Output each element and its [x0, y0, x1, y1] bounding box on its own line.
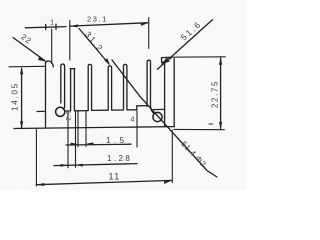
svg-text:22.75: 22.75 [211, 80, 220, 108]
svg-text:4: 4 [131, 117, 135, 124]
svg-text:1: 1 [50, 18, 54, 27]
svg-text:1.5: 1.5 [106, 136, 128, 145]
svg-text:23.1: 23.1 [87, 15, 108, 24]
svg-text:2.5: 2.5 [65, 110, 72, 121]
svg-text:14.05: 14.05 [11, 82, 20, 111]
svg-text:11: 11 [109, 172, 121, 182]
svg-text:1.28: 1.28 [107, 154, 132, 163]
